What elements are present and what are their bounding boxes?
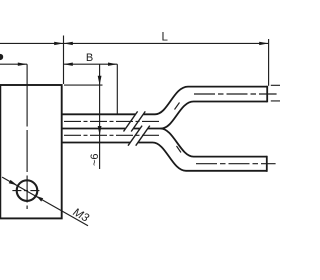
- hole centerline vertical: [26, 64, 28, 209]
- break mark rod1 left: [124, 111, 138, 131]
- dimension line B: [64, 63, 118, 65]
- break mark rod2 left: [128, 126, 142, 146]
- extension line B right (x=117.3): [116, 64, 118, 113]
- ~6 arrow upper: [98, 76, 102, 85]
- L arrow left: [64, 42, 73, 45]
- leader arrow lower: [36, 196, 43, 202]
- dimension line L: [64, 42, 269, 44]
- rods middle shared edge: [62, 128, 158, 130]
- dim ~6 reference line: [64, 84, 103, 86]
- B arrow right: [108, 63, 117, 66]
- extension line rod end (x=268.6): [268, 39, 270, 86]
- bottom rod end cap: [266, 156, 268, 172]
- bottom rod upper edge curve: [161, 129, 267, 157]
- top rod centerline: [64, 120, 159, 122]
- svg-text:B: B: [86, 52, 93, 64]
- leader arrow upper: [9, 180, 18, 185]
- dimension line left-cut top: [0, 42, 64, 44]
- extension line block face (x=63.5): [63, 36, 65, 85]
- its arrow: [54, 42, 63, 45]
- bottom rod centerline: [64, 134, 160, 136]
- top rod upper edge: [62, 87, 268, 115]
- dimension line left-cut to hole axis: [0, 63, 27, 65]
- tapped hole M3: [17, 180, 38, 201]
- hole crosshair horizontal: [12, 190, 41, 192]
- bottom rod lower edge: [62, 143, 267, 171]
- top rod lower edge curve: [158, 102, 267, 129]
- dim ~6 vertical line: [99, 64, 101, 169]
- leader line M3: [2, 177, 88, 226]
- break mark rod2 right: [136, 126, 150, 146]
- svg-text:~6: ~6: [89, 153, 101, 166]
- cropped neighbour lines right edge: [271, 85, 280, 101]
- partial digit at left edge: [0, 54, 3, 60]
- ~6 arrow lower: [98, 126, 102, 135]
- clamp block body: [0, 85, 61, 218]
- top rod end cap: [266, 86, 268, 103]
- break mark rod1 right: [131, 111, 145, 131]
- its arrow: [18, 63, 27, 66]
- L arrow right: [259, 42, 268, 45]
- svg-text:L: L: [161, 32, 168, 44]
- B arrow left: [64, 63, 73, 66]
